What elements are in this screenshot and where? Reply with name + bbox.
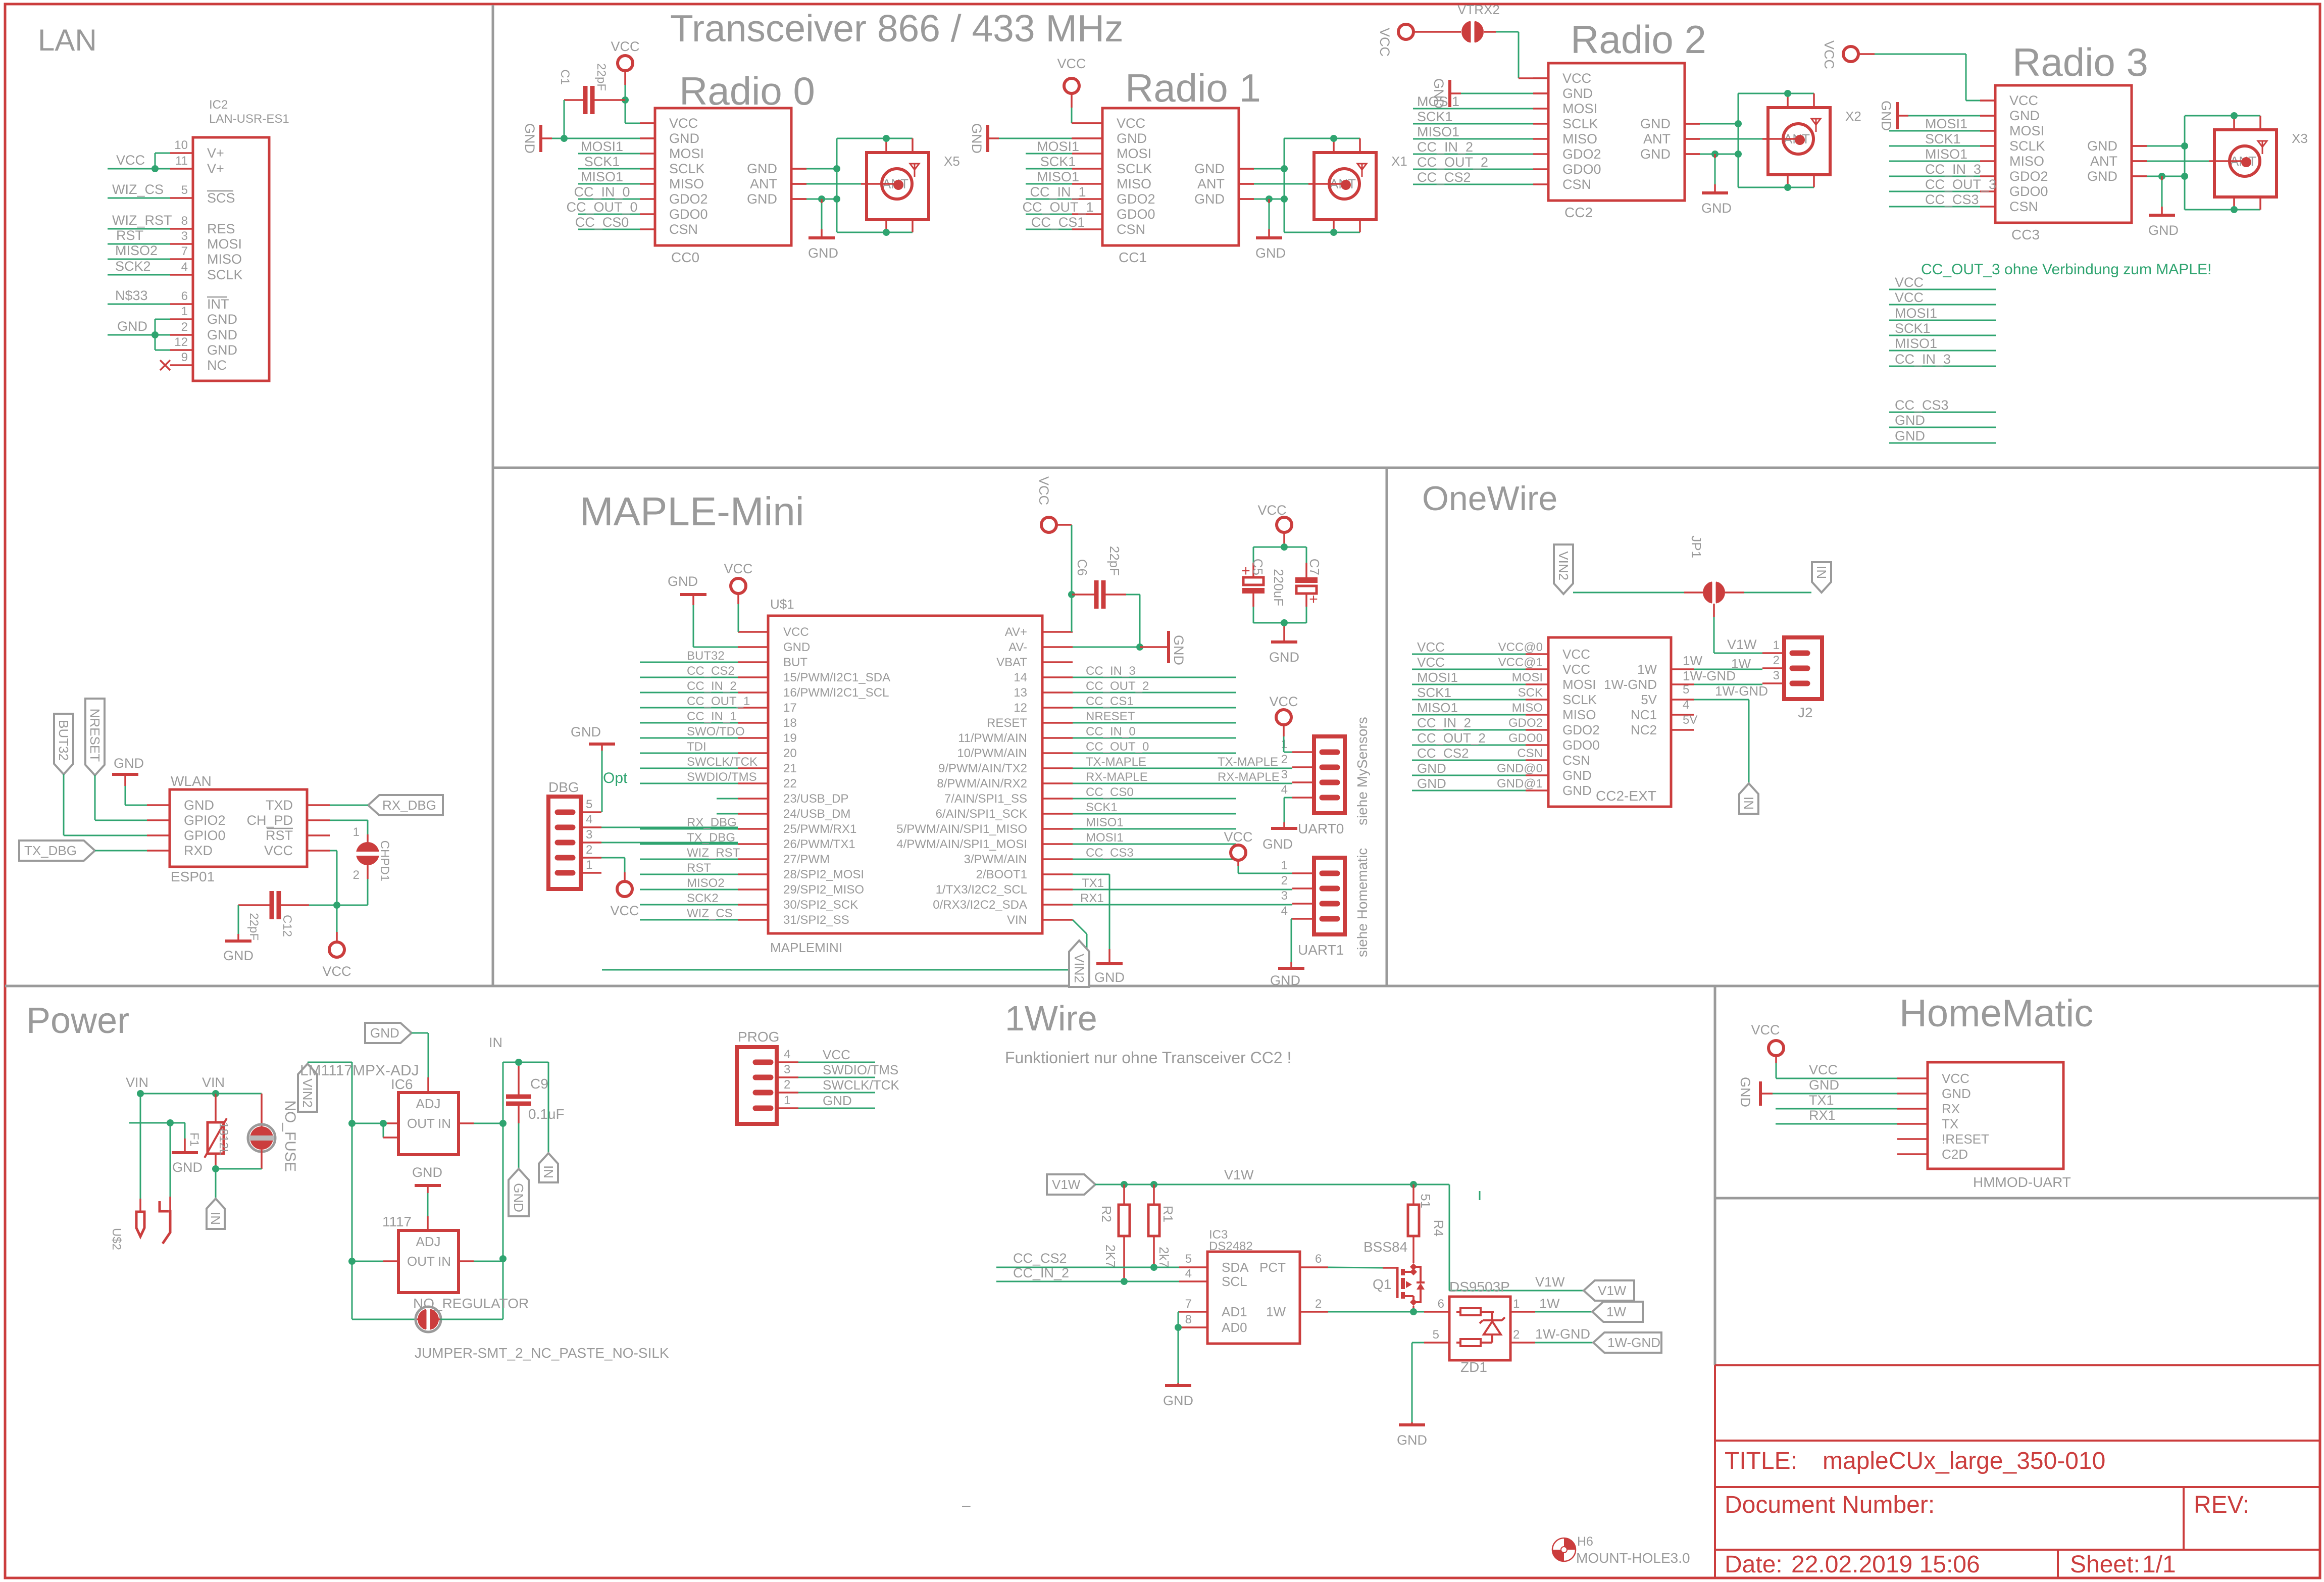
X2 bottom gnd wire [1738,187,1814,188]
svg-text:SCK2: SCK2 [115,259,151,274]
svg-text:SCLK: SCLK [207,267,243,282]
net CC_OUT_0 wire to CC0 [578,214,640,215]
net RX1 wire to HMMOD TX [1776,1123,1897,1125]
svg-text:MOSI1: MOSI1 [1417,670,1458,685]
svg-text:Power: Power [26,1001,129,1041]
svg-text:C6: C6 [1075,559,1090,576]
svg-text:SCK1: SCK1 [1417,109,1453,124]
svg-text:Document Number:: Document Number: [1725,1492,1935,1518]
svg-text:4: 4 [784,1048,790,1061]
X1 center circle [1329,169,1359,199]
wire TX_DBG to RXD [95,850,147,852]
ground symbol (Radio 1 left) [986,125,989,152]
net CC_OUT_0 wire from U$1 [1073,753,1236,754]
svg-text:Radio 2: Radio 2 [1571,17,1706,62]
svg-text:3/PWM/AIN: 3/PWM/AIN [964,853,1027,866]
svg-text:29/SPI2_MISO: 29/SPI2_MISO [783,883,864,897]
svg-text:2: 2 [784,1078,790,1092]
wire DS9503P pin5 to GND [1412,1342,1424,1344]
HMMOD-UART pin stub y=2225 [1897,1123,1928,1125]
svg-text:22pF: 22pF [594,63,608,91]
svg-text:CC_CS0: CC_CS0 [575,215,629,230]
IC HMMOD-UART box [1928,1062,2063,1169]
svg-text:9/PWM/AIN/TX2: 9/PWM/AIN/TX2 [938,762,1027,775]
net CC_IN_3 wire from U$1 [1073,677,1236,678]
svg-text:CC_OUT_2: CC_OUT_2 [1417,730,1486,746]
wire fuse bottom row [216,1168,262,1170]
net CC_IN_0 wire from U$1 [1073,737,1236,739]
svg-text:AD0: AD0 [1222,1320,1247,1335]
wire BUT32 to GPIO0 [63,774,65,835]
net CC_OUT_2 wire from U$1 [1073,692,1236,694]
wire X3 GND2 pin [2132,175,2147,177]
svg-text:MISO: MISO [2009,154,2044,169]
net stub CC_CS3 y=816 [1889,412,1996,413]
Q1 source down to 1W net [1412,1306,1414,1312]
svg-text:ANT: ANT [750,176,777,191]
CC2-EXT pin stub CSN [1526,759,1548,761]
svg-text:TDI: TDI [687,740,706,754]
svg-text:JP1: JP1 [1689,535,1704,558]
svg-text:Transceiver 866 / 433 MHz: Transceiver 866 / 433 MHz [670,7,1124,50]
net MOSI1 wire to CC0 [578,153,640,155]
svg-text:Opt: Opt [603,770,628,786]
svg-text:6/AIN/SPI1_SCK: 6/AIN/SPI1_SCK [936,807,1027,821]
svg-text:2: 2 [586,843,592,857]
svg-text:VCC: VCC [116,153,145,168]
svg-text:MISO: MISO [207,252,242,267]
svg-text:CC_IN_3: CC_IN_3 [1895,352,1951,367]
IC2 pin stub y=602 [170,303,193,305]
svg-text:19: 19 [783,731,797,745]
net RX1 wire U$1 to UART1 [1073,904,1292,906]
svg-text:R2: R2 [1099,1206,1114,1222]
svg-text:31/SPI2_SS: 31/SPI2_SS [783,913,849,927]
svg-text:4/PWM/AIN/SPI1_MOSI: 4/PWM/AIN/SPI1_MOSI [896,837,1027,851]
wire DBG pin5 to GND [601,751,603,812]
svg-text:5: 5 [586,798,592,811]
PROG pin bar 1 [755,1106,771,1111]
svg-text:3: 3 [1773,669,1780,682]
svg-text:SCLK: SCLK [1117,161,1152,176]
wire X5 ANT pin to connector [791,183,806,185]
svg-text:1W: 1W [1266,1304,1286,1319]
svg-text:GND: GND [2087,138,2117,154]
svg-text:R4: R4 [1431,1220,1446,1237]
svg-text:22pF: 22pF [1107,546,1122,576]
svg-text:1/1: 1/1 [2142,1551,2176,1578]
U$1 left pin stub y=1371 [738,691,768,694]
svg-text:RX1: RX1 [1080,892,1104,905]
svg-text:MAPLE-Mini: MAPLE-Mini [580,489,804,534]
svg-text:C7: C7 [1307,559,1322,575]
connector UART1 box [1314,858,1345,934]
X1 bottom gnd wire [1284,232,1360,233]
svg-text:GND: GND [1942,1086,1971,1101]
flag BUT32 [54,714,73,774]
wire X2 GND2 pin [1685,153,1700,155]
DBG pin bar 5 [558,810,573,815]
Q1 drain to R4 [1412,1255,1414,1263]
svg-text:BUT32: BUT32 [56,720,71,761]
svg-text:VCC: VCC [669,116,698,131]
net SCK2 wire to U$1 [640,904,738,906]
svg-text:1: 1 [353,825,360,839]
UART0 pin bar 1 [1322,750,1337,755]
svg-text:VCC: VCC [823,1047,850,1062]
svg-text:BUT32: BUT32 [687,649,725,663]
svg-text:RST: RST [266,828,293,843]
X2 top gnd wire [1738,93,1814,94]
svg-text:SWDIO/TMS: SWDIO/TMS [687,770,757,784]
ground symbol (Radio 3 left) [1896,102,1899,129]
X5 center circle [882,169,912,199]
svg-text:Sheet:: Sheet: [2070,1551,2140,1578]
connector J2 box [1784,637,1822,699]
net NRESET wire from U$1 [1073,722,1236,724]
svg-text:6: 6 [181,289,188,303]
svg-text:VCC: VCC [611,39,639,54]
U$1 right pin stub y=1491 [1042,752,1073,754]
svg-text:GDO2: GDO2 [1562,146,1601,162]
IC2 pin 9 NC no-connect cross [160,360,170,370]
svg-text:N$33: N$33 [115,288,148,303]
svg-text:1W-GND: 1W-GND [1607,1335,1660,1350]
svg-text:IN: IN [208,1212,223,1225]
svg-text:GDO0: GDO0 [1508,731,1543,745]
svg-text:CC_CS2: CC_CS2 [687,664,735,678]
svg-text:1W-GND: 1W-GND [1535,1326,1590,1342]
long wire VIN2 bottom to DBG pin1 [602,969,1087,971]
wire VTRX2 to CC2 VCC pin [1496,31,1519,33]
svg-text:WIZ_RST: WIZ_RST [112,213,172,228]
svg-text:GND: GND [412,1165,442,1180]
svg-text:SCLK: SCLK [1562,692,1597,707]
svg-text:IN: IN [489,1035,502,1050]
wire GND to U$1 GND pin [693,605,694,647]
wire VCC to C1 junction [625,85,626,100]
IC3 PCT pin6 wire to Q1 gate [1300,1266,1328,1268]
U$1 USB_DM stub wire [717,813,738,815]
net RX-MAPLE wire U$1 to UART0 [1073,783,1292,784]
CC2-EXT pin stub MOSI [1526,683,1548,685]
svg-text:VCC: VCC [1417,639,1445,655]
PROG pin bar 2 [755,1090,771,1096]
svg-text:CC_CS2: CC_CS2 [1417,170,1471,185]
DBG pin bar 3 [558,840,573,846]
svg-text:CC0: CC0 [671,250,699,265]
net stub CC_IN_3 y=725 [1889,366,1996,367]
X2 gnd rail vertical [1738,93,1739,187]
svg-text:Radio 0: Radio 0 [679,69,815,113]
svg-text:SCK1: SCK1 [584,154,620,169]
section divider HomeMatic left [1714,986,1716,1365]
svg-text:ANT: ANT [1197,176,1225,191]
U$1 left pin stub y=1671 [738,843,768,845]
svg-text:GND: GND [1094,970,1125,985]
IC2 pin stub y=453 [170,228,193,230]
svg-text:RST: RST [687,861,711,875]
svg-text:V1W: V1W [1224,1167,1254,1182]
svg-text:Radio 3: Radio 3 [2012,40,2148,84]
svg-text:CC_IN_1: CC_IN_1 [1030,184,1086,200]
svg-text:V1W: V1W [1052,1177,1081,1192]
svg-text:GND: GND [2009,108,2040,123]
net MOSI1 wire from U$1 [1073,844,1236,845]
svg-text:SCK1: SCK1 [1925,131,1961,146]
wire V1W rail [1095,1184,1449,1185]
connector PROG box [737,1047,777,1124]
svg-text:H6: H6 [1577,1535,1593,1549]
svg-text:X1: X1 [1391,154,1407,169]
net CC_CS2 wire to CC2 [1413,184,1533,185]
svg-text:2: 2 [1281,753,1288,766]
net CC_OUT_1 wire to U$1 [640,707,738,709]
U$1 left pin stub y=1431 [738,722,768,724]
Q1 body diode [1413,1267,1421,1282]
svg-text:GND: GND [1879,101,1894,131]
antenna connector X1 box [1314,153,1376,220]
ground symbol below X1 [1266,195,1273,203]
U$1 left pin stub y=1701 [738,858,768,860]
svg-text:MISO: MISO [669,176,704,191]
net VCC wire from PROG [798,1062,875,1063]
svg-text:GND: GND [1895,413,1925,428]
wire jack sleeve row [129,1122,185,1124]
svg-text:CSN: CSN [1562,753,1590,768]
svg-text:CC_CS2: CC_CS2 [1417,746,1469,761]
svg-text:GDO2: GDO2 [1117,191,1155,207]
net MISO1 wire to CC0 [578,183,640,185]
net CC_CS1 wire from U$1 [1073,707,1236,709]
ESP01 right pin stub y=1624 [307,819,330,821]
net stub MOSI1 y=634 [1889,320,1996,321]
svg-text:IC2: IC2 [209,98,228,112]
capacitor C6 22pF [1072,594,1095,596]
wire IN rail down to 1117 [502,1123,504,1259]
svg-text:HMMOD-UART: HMMOD-UART [1973,1174,2071,1190]
IC2 pin stub y=632 [170,318,193,320]
svg-text:VIN: VIN [202,1075,225,1090]
svg-text:7: 7 [1185,1297,1192,1311]
svg-text:CC2: CC2 [1564,205,1593,220]
svg-text:GND: GND [511,1183,526,1212]
IC2 pin stub y=544 [170,274,193,276]
svg-text:GND: GND [1163,1393,1193,1408]
svg-text:V+: V+ [207,145,224,161]
antenna connector X5 box [867,153,929,220]
net GND wire to CC2-EXT [1412,775,1526,776]
DBG pin bar 1 [558,870,573,876]
svg-text:C9: C9 [530,1076,548,1092]
svg-text:CC_OUT_3: CC_OUT_3 [1925,177,1996,192]
svg-text:1Wire: 1Wire [1005,999,1097,1038]
svg-text:CC_IN_1: CC_IN_1 [687,710,737,723]
svg-text:1: 1 [1773,638,1780,652]
U$1 right pin stub y=1521 [1042,767,1073,769]
net CC_IN_2 wire to CC2-EXT [1412,729,1526,731]
ESP01 right pin stub y=1654 [307,834,330,836]
svg-text:IN: IN [438,1116,451,1131]
svg-text:1812L: 1812L [217,1122,230,1156]
U$1 USB_DP stub wire [717,798,738,800]
ground symbol (Radio 2 left) [1448,80,1451,107]
svg-text:ANT: ANT [1643,131,1671,146]
U$1 right pin stub y=1431 [1042,722,1073,724]
svg-text:3: 3 [784,1063,790,1076]
svg-text:TITLE:: TITLE: [1725,1448,1797,1474]
X5 bottom gnd wire [837,232,913,233]
svg-text:VIN2: VIN2 [1556,551,1571,580]
svg-text:4: 4 [1683,698,1689,712]
wire GND flag to ADJ [412,1032,428,1034]
net TX1 wire to HMMOD RX [1776,1108,1897,1110]
svg-text:16/PWM/I2C1_SCL: 16/PWM/I2C1_SCL [783,686,889,700]
svg-text:1117: 1117 [382,1214,412,1229]
net SWO/TDO wire to U$1 [640,737,738,739]
svg-text:AD1: AD1 [1222,1304,1247,1319]
svg-text:VCC: VCC [1377,28,1392,57]
svg-text:GND: GND [117,319,147,334]
svg-text:NRESET: NRESET [1086,710,1135,723]
flag V1W (right) [1584,1280,1634,1301]
svg-text:1: 1 [586,858,592,872]
svg-text:X5: X5 [944,154,960,169]
svg-text:CSN: CSN [2009,199,2038,214]
IC2 pin stub y=693 [170,349,193,351]
svg-text:3: 3 [1281,889,1288,903]
svg-text:GND: GND [808,245,838,261]
svg-text:SCS: SCS [207,190,235,206]
UART0 pin bar 2 [1322,765,1337,770]
net stub VCC y=603 [1889,304,1996,306]
svg-text:MISO: MISO [1117,176,1151,191]
IC2 pin stub y=392 [170,197,193,199]
svg-text:OUT: OUT [407,1254,435,1269]
svg-text:AV+: AV+ [1005,625,1027,639]
svg-text:TX1: TX1 [1809,1093,1834,1108]
svg-text:8/PWM/AIN/RX2: 8/PWM/AIN/RX2 [937,777,1027,790]
svg-text:SCK1: SCK1 [1040,154,1076,169]
svg-text:NC1: NC1 [1631,707,1657,722]
wire X3 GND pin [2132,145,2147,147]
svg-text:AV-: AV- [1008,640,1027,654]
svg-text:WIZ_RST: WIZ_RST [687,846,740,860]
IC IC3 DS2482 box [1207,1252,1300,1344]
U$1 right pin stub y=1461 [1042,737,1073,739]
svg-text:7/AIN/SPI1_SS: 7/AIN/SPI1_SS [944,792,1027,806]
svg-text:GND: GND [668,574,698,589]
net stub VCC y=573 [1889,289,1996,290]
U$1 right pin stub y=1821 [1042,919,1073,921]
svg-text:GND: GND [1895,428,1925,443]
svg-text:SWCLK/TCK: SWCLK/TCK [687,755,757,769]
wire VCC to UART0 pin1 [1283,736,1285,752]
UART1 pin bar 1 [1322,871,1337,876]
svg-text:V1W: V1W [1535,1274,1565,1290]
svg-text:LAN-USR-ES1: LAN-USR-ES1 [209,112,289,126]
svg-text:5: 5 [181,183,188,197]
svg-text:12: 12 [174,335,188,349]
svg-text:GND: GND [522,123,537,154]
wire C6 to AV- net [1126,594,1140,596]
svg-text:1: 1 [784,1094,790,1107]
UART0 pin bar 4 [1322,795,1337,801]
IC3 AD0 pin8 [1179,1326,1207,1328]
svg-text:CC_CS2: CC_CS2 [1013,1251,1067,1266]
DS9503P zener diode [1491,1312,1493,1320]
svg-text:5: 5 [1185,1252,1192,1266]
transceiver IC CC3 (Radio 3) box [1995,85,2132,223]
svg-text:PCT: PCT [1259,1260,1286,1275]
svg-text:DS9503P: DS9503P [1449,1279,1510,1295]
U$1 left pin stub y=1551 [738,782,768,784]
svg-text:VIN2: VIN2 [300,1078,315,1108]
svg-text:9: 9 [181,351,188,364]
svg-text:ANT: ANT [2090,154,2117,169]
svg-text:24/USB_DM: 24/USB_DM [783,807,850,821]
svg-text:SCLK: SCLK [1562,116,1598,131]
section divider Transceiver/MAPLE [493,467,2319,469]
svg-text:2: 2 [181,320,188,334]
svg-text:14: 14 [1014,671,1027,684]
U$1 right pin stub y=1761 [1042,888,1073,891]
svg-text:7: 7 [181,244,188,258]
svg-text:1W-GND: 1W-GND [1604,677,1657,692]
X2 antenna icon [1811,119,1821,132]
ground symbol (Radio 0 left) [539,125,542,152]
svg-text:MISO: MISO [1562,707,1596,722]
svg-text:GND: GND [184,798,214,813]
svg-text:IN: IN [541,1165,556,1178]
svg-text:20: 20 [783,747,797,760]
svg-text:V1W: V1W [1598,1283,1627,1298]
CC2-EXT pin stub GDO0 [1526,744,1548,746]
svg-text:2K7: 2K7 [1103,1245,1118,1268]
U$1 left pin stub y=1521 [738,767,768,769]
svg-text:5: 5 [1683,683,1689,697]
svg-text:GND: GND [1417,776,1446,791]
svg-text:3: 3 [1281,768,1288,781]
svg-text:CC_IN_0: CC_IN_0 [574,184,630,200]
svg-text:2: 2 [1315,1297,1322,1311]
svg-text:CC_OUT_2: CC_OUT_2 [1417,155,1488,170]
svg-text:MOSI: MOSI [669,146,704,161]
wire AD pins to GND [1178,1327,1179,1383]
svg-text:GDO2: GDO2 [1562,722,1600,737]
svg-text:VCC: VCC [1257,503,1286,518]
svg-text:SCK1: SCK1 [1417,685,1451,700]
svg-text:GDO0: GDO0 [1117,207,1155,222]
svg-text:SWCLK/TCK: SWCLK/TCK [823,1077,899,1093]
wire CHPD1 to VCC junction [367,879,369,905]
varistor F1 1812L [215,1094,217,1122]
svg-text:GND: GND [207,312,237,327]
net CC_OUT_1 wire to CC1 [1026,214,1072,215]
X3 gnd rail vertical [2184,116,2186,210]
net CC_IN_2 wire to U$1 [640,692,738,694]
svg-text:GND: GND [2087,169,2117,184]
net CC_CS3 wire from U$1 [1073,859,1236,860]
svg-text:3: 3 [181,229,188,243]
wire JP1 down to J2 pin1 [1713,604,1715,617]
svg-text:CC_OUT_1: CC_OUT_1 [687,695,750,708]
wire OUT rail [351,1123,353,1319]
svg-text:GND: GND [783,640,810,654]
svg-text:MISO1: MISO1 [1417,700,1458,715]
svg-text:MOUNT-HOLE3.0: MOUNT-HOLE3.0 [1576,1550,1690,1566]
UART1 pin bar 4 [1322,916,1337,922]
